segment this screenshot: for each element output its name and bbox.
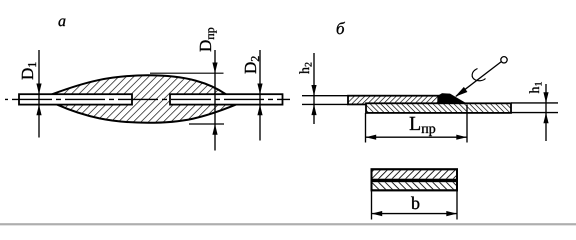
wire 2 (right conductor) bbox=[170, 94, 283, 104]
wire 1 (left conductor) bbox=[19, 94, 132, 104]
lower plate (hatched) bbox=[366, 103, 511, 113]
label b (figure b caption) bbox=[337, 22, 345, 34]
solder lens body (hatched) bbox=[52, 75, 236, 123]
dimension h1 bbox=[511, 82, 558, 141]
upper plate (hatched) bbox=[348, 96, 450, 105]
dimension b bbox=[372, 191, 458, 220]
dimension Lpr bbox=[366, 105, 468, 143]
solder fillet (black) bbox=[438, 93, 469, 104]
dimension h2 bbox=[299, 53, 348, 124]
bottom gray bar bbox=[0, 223, 576, 225]
centerline (axis of figure a) bbox=[5, 98, 290, 100]
solder leader line with circle bbox=[455, 57, 507, 97]
dimension D2 bbox=[245, 50, 263, 141]
cross-section (b view) bbox=[372, 169, 458, 190]
label a (figure a caption) bbox=[59, 19, 66, 27]
dimension D1 bbox=[22, 50, 42, 138]
dimension Dpr bbox=[150, 28, 224, 151]
